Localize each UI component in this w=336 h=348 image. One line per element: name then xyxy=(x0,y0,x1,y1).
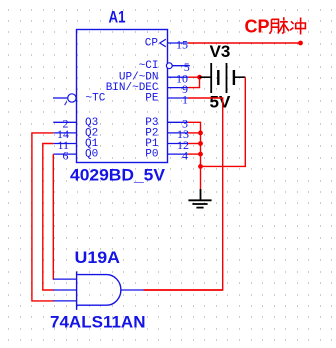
svg-text:A1: A1 xyxy=(109,7,126,26)
svg-text:P0: P0 xyxy=(145,149,158,161)
wire P0 stub join xyxy=(188,153,201,155)
pin P1 stub (12) xyxy=(168,143,189,145)
svg-text:PE: PE xyxy=(145,93,159,105)
wire Q0 to U19A input A xyxy=(52,154,55,279)
net label CP脉冲 : 脉 glyph xyxy=(270,17,290,34)
pin ~TC stub xyxy=(53,97,68,99)
AND gate U19A body xyxy=(77,271,121,310)
junction +5V node xyxy=(197,75,202,80)
pin ~TC tick mark xyxy=(65,101,67,105)
svg-text:U19A: U19A xyxy=(75,248,121,267)
ground symbol xyxy=(188,189,211,208)
net label CP脉冲 : 冲 glyph xyxy=(290,18,305,35)
junction CP脉冲 terminal dot xyxy=(298,41,303,46)
svg-text:V3: V3 xyxy=(210,42,231,61)
wire P1 stub join xyxy=(188,143,201,145)
svg-text:CP: CP xyxy=(245,17,270,37)
junction ground rail xyxy=(198,164,203,169)
pin Q1 stub (11) xyxy=(53,143,76,145)
U19A input B stub xyxy=(53,289,76,291)
svg-text:6: 6 xyxy=(63,148,69,162)
svg-text:5V: 5V xyxy=(210,93,231,112)
pin UP/~DN stub (10) xyxy=(168,76,189,78)
U19A output stub xyxy=(121,289,144,291)
pin Q2 stub (14) xyxy=(53,132,76,134)
junction P2 xyxy=(198,131,203,136)
svg-text:~TC: ~TC xyxy=(86,93,106,105)
svg-text:15: 15 xyxy=(176,37,188,51)
wire battery negative to ground rail xyxy=(201,77,246,166)
pin Q3 stub (2) xyxy=(53,121,76,123)
junction P1 xyxy=(198,141,203,146)
pin P2 stub (13) xyxy=(168,132,189,134)
pin PE stub (1) xyxy=(168,97,189,99)
pin CP clock wedge xyxy=(160,39,166,47)
battery V3 positive lead xyxy=(200,76,212,78)
pin ~CI bubble xyxy=(166,63,172,69)
pin ~TC bubble xyxy=(68,94,76,102)
svg-text:74ALS11AN: 74ALS11AN xyxy=(50,312,146,331)
wire P3 to ground rail xyxy=(188,122,201,166)
svg-text:4: 4 xyxy=(182,148,188,162)
U19A input A stub xyxy=(53,278,76,280)
svg-text:CP: CP xyxy=(145,38,159,50)
svg-text:Q0: Q0 xyxy=(85,149,98,161)
wire CP net to CP脉冲 xyxy=(188,42,301,44)
IC A1 body xyxy=(77,30,168,163)
wire ground drop xyxy=(200,166,202,189)
pin BIN/~DEC stub (9) xyxy=(168,87,189,89)
pin P0 stub (4) xyxy=(168,153,189,155)
wire PE to U19A output (vertical run) xyxy=(144,98,223,290)
battery V3 negative lead xyxy=(234,76,245,78)
wire Q2 to U19A input C xyxy=(32,133,54,301)
wire P2 stub join xyxy=(188,132,201,134)
svg-text:1: 1 xyxy=(182,92,188,106)
svg-text:4029BD_5V: 4029BD_5V xyxy=(70,166,166,185)
pin Q0 stub (6) xyxy=(53,153,76,155)
wire Q1 to U19A input B xyxy=(43,144,54,291)
pin P3 stub (3) xyxy=(168,121,189,123)
U19A input C stub xyxy=(53,300,76,302)
wire BIN/~DEC to +5V node xyxy=(188,77,200,87)
battery V3 plates xyxy=(211,63,234,93)
junction P0 xyxy=(198,152,203,157)
wire U19A output xyxy=(144,289,223,291)
pin ~CI stub (5) xyxy=(172,65,190,67)
pin CP stub (15) xyxy=(168,42,189,44)
wire UP/~DN to +5V node xyxy=(188,76,200,78)
svg-text:~CI: ~CI xyxy=(139,60,159,72)
